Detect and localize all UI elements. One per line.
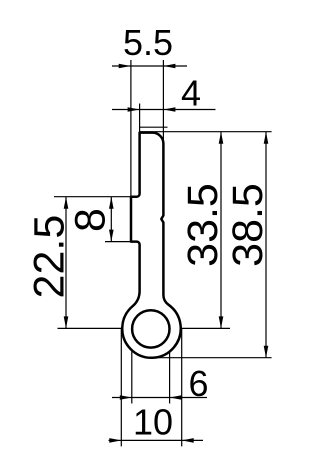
arrow 10 left: [109, 438, 121, 443]
arrow 5.5 right: [163, 64, 175, 69]
dimension line 4: [112, 109, 140, 111]
svg-text:10: 10: [133, 402, 173, 443]
arrow 4 left: [128, 107, 140, 112]
extension line 5.5/4 right: [162, 60, 164, 145]
extension line step1 (y=196.7): [54, 196, 131, 198]
top extension line (profile top): [140, 131, 272, 133]
svg-text:33.5: 33.5: [179, 183, 227, 267]
extension line 10 left: [120, 328, 122, 446]
arrow 10 right: [182, 438, 194, 443]
arrow 33.5 bottom: [219, 316, 224, 328]
arrow 4 right: [163, 107, 175, 112]
dimension line 22.5: [65, 197, 67, 329]
extension line step2 (y=241.6): [105, 241, 133, 243]
profile outline: [122, 133, 180, 358]
dimension line 8: [110, 197, 112, 242]
arrow 8 top: [109, 197, 114, 209]
svg-text:8: 8: [67, 208, 115, 232]
inner hole circle: [132, 310, 169, 347]
short extension line above cap: [140, 126, 168, 128]
dimension line 33.5: [220, 132, 222, 329]
arrow 22.5 top: [64, 197, 69, 209]
dimension line 10: [109, 439, 122, 441]
dimension line 38.5: [265, 132, 267, 358]
svg-text:4: 4: [181, 73, 201, 114]
extension line 5.5-left / lip left: [130, 60, 132, 197]
arrow 33.5 top: [219, 132, 224, 144]
arrow 8 bottom: [109, 230, 114, 242]
arrow 38.5 top: [264, 132, 269, 144]
extension line 6 left: [131, 330, 133, 404]
arrow 5.5 left: [119, 64, 131, 69]
arrow 22.5 bottom: [64, 316, 69, 328]
arrow 38.5 bottom: [264, 346, 269, 358]
extension line 10 right: [181, 328, 183, 446]
bottom extension line (bulb bottom): [151, 357, 272, 359]
svg-text:5.5: 5.5: [123, 22, 173, 63]
centre line of bulb: [58, 327, 231, 329]
extension tick 4-left (stem left): [139, 104, 141, 133]
arrow 6 right: [170, 395, 182, 400]
dimension line 6: [112, 397, 132, 399]
svg-text:38.5: 38.5: [224, 183, 272, 267]
dimension line 5.5: [112, 65, 131, 67]
extension line 6 right: [169, 330, 171, 404]
arrow 6 left: [120, 395, 132, 400]
